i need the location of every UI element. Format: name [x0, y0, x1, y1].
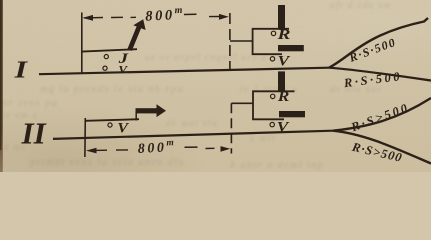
- svg-text:R: R: [277, 89, 290, 104]
- svg-text:R: R: [276, 26, 290, 42]
- svg-text:II: II: [21, 116, 47, 151]
- svg-text:V: V: [278, 53, 291, 69]
- svg-text:V: V: [277, 119, 290, 135]
- svg-text:I: I: [13, 57, 28, 83]
